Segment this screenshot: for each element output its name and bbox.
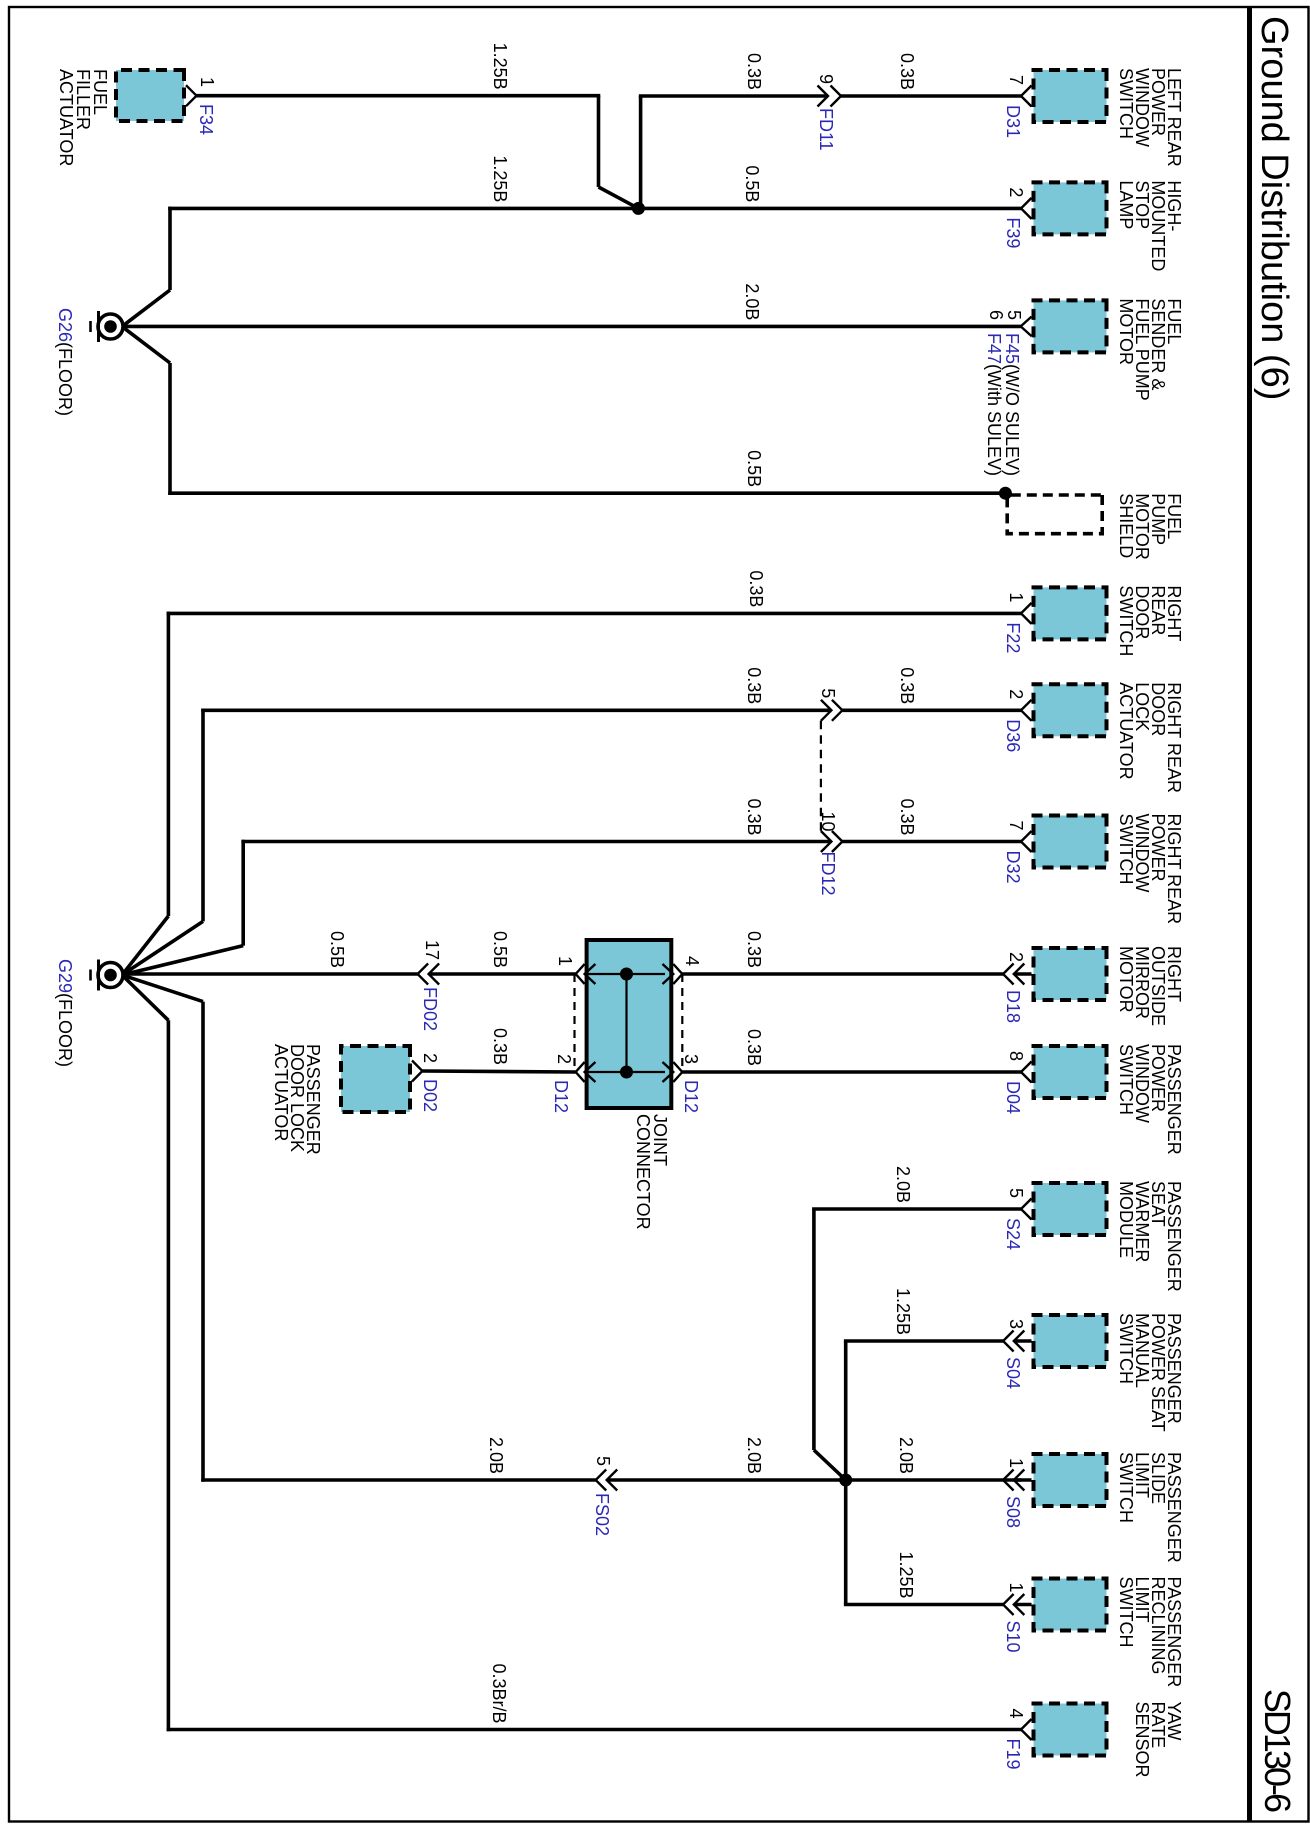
- label passenger door lock actuator: [271, 1044, 323, 1155]
- joint connector box: [587, 940, 672, 1108]
- junction dot at shield corner: [999, 487, 1012, 500]
- wire S10 riser: [844, 1603, 1003, 1607]
- svg-text:FD12: FD12: [818, 852, 838, 896]
- svg-text:0.3B: 0.3B: [744, 931, 764, 968]
- in-line connector FS02: [596, 1470, 618, 1491]
- wire F45 pins to G26: [122, 325, 1021, 329]
- svg-text:2.0B: 2.0B: [742, 283, 762, 320]
- connector double chevron S04: [1003, 1331, 1031, 1352]
- connector pin V of D32: [1021, 831, 1032, 852]
- svg-text:MODULE: MODULE: [1116, 1181, 1136, 1258]
- connector double chevron S08: [1003, 1470, 1031, 1491]
- wire D31 corner to junction dot: [639, 96, 643, 208]
- svg-text:1.25B: 1.25B: [490, 155, 510, 202]
- svg-text:2: 2: [1006, 689, 1026, 699]
- svg-text:6: 6: [986, 310, 1006, 320]
- ground G26 (floor) symbol: [91, 311, 124, 342]
- svg-text:MOTOR: MOTOR: [1116, 298, 1136, 365]
- svg-text:D32: D32: [1003, 851, 1023, 884]
- wire F34 horizontal jog: [597, 96, 601, 187]
- svg-text:0.3B: 0.3B: [744, 667, 764, 704]
- svg-text:SWITCH: SWITCH: [1116, 1044, 1136, 1115]
- svg-text:0.3B: 0.3B: [897, 798, 917, 835]
- connector pin V of S24: [1021, 1199, 1032, 1220]
- svg-text:LAMP: LAMP: [1116, 180, 1136, 229]
- svg-text:SHIELD: SHIELD: [1116, 493, 1136, 558]
- wire S04 drop: [844, 1339, 1003, 1343]
- component box D31 left rear power window switch: [1034, 70, 1107, 122]
- G29 bus D36: [201, 709, 205, 922]
- svg-text:5: 5: [593, 1456, 613, 1466]
- svg-text:2: 2: [1006, 187, 1026, 197]
- G26 bus right: [168, 363, 172, 495]
- svg-text:2: 2: [420, 1053, 440, 1063]
- svg-text:SWITCH: SWITCH: [1116, 68, 1136, 139]
- connector double chevron S10: [1003, 1594, 1031, 1615]
- connector pin V of D02: [412, 1061, 422, 1082]
- label S04 passenger power seat manual switch component name text: [1116, 1313, 1184, 1432]
- G29 fan diagonal D36: [122, 921, 203, 975]
- connector pin V of D04: [1021, 1062, 1032, 1083]
- svg-text:F39: F39: [1003, 217, 1023, 248]
- svg-text:4: 4: [682, 956, 702, 966]
- svg-text:ACTUATOR: ACTUATOR: [1116, 682, 1136, 779]
- component box F22 right rear door switch: [1034, 587, 1107, 639]
- label F22 right rear door switch component name text: [1116, 585, 1184, 656]
- wire FD02 to ground G29: [122, 972, 418, 976]
- in-line connector FD02: [418, 964, 440, 985]
- connector double chevron D18: [1003, 964, 1031, 985]
- connector pin V of F19: [1021, 1719, 1032, 1740]
- wire F34 diagonal to junction: [599, 187, 639, 208]
- svg-text:D18: D18: [1003, 990, 1023, 1023]
- component box F19 yaw rate sensor: [1034, 1704, 1107, 1756]
- svg-text:ACTUATOR: ACTUATOR: [56, 69, 76, 166]
- wire junction to S08: [846, 1478, 1021, 1482]
- svg-text:F45(W/O SULEV): F45(W/O SULEV): [1002, 333, 1022, 476]
- component box F39 high mounted stop lamp: [1034, 182, 1107, 234]
- label fuel sender & fuel pump motor: [1116, 298, 1184, 400]
- svg-text:1: 1: [197, 77, 217, 87]
- label D32 right rear power window switch component name text: [1116, 814, 1184, 925]
- component box F34 fuel filler actuator: [116, 70, 184, 121]
- wire F39 trunk upper: [168, 207, 1021, 211]
- component box D04 passenger power window switch: [1034, 1046, 1107, 1098]
- wire joint connector pin 1 to FD02: [429, 972, 576, 976]
- svg-text:D02: D02: [420, 1079, 440, 1112]
- label D18 right outside mirror motor component name text: [1116, 946, 1184, 1026]
- wire junction to S10 corner: [844, 1480, 848, 1605]
- svg-text:D04: D04: [1003, 1081, 1023, 1114]
- connector pin V of F39: [1021, 198, 1032, 219]
- svg-text:5: 5: [1004, 310, 1024, 320]
- G26 fan diagonal right: [122, 327, 170, 364]
- svg-text:D31: D31: [1003, 105, 1023, 138]
- label S08 passenger slide limit switch component name text: [1116, 1452, 1184, 1563]
- label JOINT CONNECTOR: [633, 1114, 670, 1230]
- svg-text:S10: S10: [1003, 1621, 1023, 1653]
- svg-text:0.5B: 0.5B: [744, 450, 764, 487]
- svg-text:S08: S08: [1003, 1496, 1023, 1528]
- dashed link between FD12 halves: [820, 721, 822, 831]
- svg-text:0.5B: 0.5B: [490, 931, 510, 968]
- label F39 high mounted stop lamp component name text: [1116, 180, 1184, 271]
- joint connector pin chevron top x=1072: [673, 1062, 682, 1082]
- junction dot on F39 trunk: [632, 202, 645, 215]
- wire D04 pin8 to joint connector pin 3: [682, 1070, 1021, 1074]
- svg-text:0.3B: 0.3B: [897, 53, 917, 90]
- joint connector internal bus wire: [625, 974, 627, 1072]
- wire FD11 to corner: [639, 94, 828, 98]
- svg-text:1.25B: 1.25B: [893, 1288, 913, 1335]
- wire fuel pump motor shield drop: [168, 491, 1005, 495]
- svg-text:F47(With SULEV): F47(With SULEV): [984, 333, 1004, 476]
- component box F45/F47 fuel sender & fuel pump motor: [1034, 300, 1107, 352]
- svg-text:Ground Distribution (6): Ground Distribution (6): [1253, 16, 1295, 400]
- wire D32 to G29 bus: [241, 840, 831, 844]
- svg-text:0.5B: 0.5B: [742, 165, 762, 202]
- svg-text:7: 7: [1006, 820, 1026, 830]
- component box D18 right outside mirror motor: [1034, 948, 1107, 1000]
- in-line connector FD12: [821, 831, 843, 852]
- svg-text:0.3B: 0.3B: [746, 570, 766, 607]
- label D36 right rear door lock actuator component name text: [1116, 682, 1184, 793]
- wire FS02 to G29 bus: [201, 1478, 596, 1482]
- svg-text:SENSOR: SENSOR: [1132, 1702, 1152, 1778]
- svg-text:0.3Br/B: 0.3Br/B: [489, 1663, 509, 1723]
- svg-text:FS02: FS02: [592, 1493, 612, 1536]
- wire S24 drop: [812, 1207, 1021, 1211]
- wire F19 yaw rate sensor drop: [167, 1728, 1021, 1732]
- svg-text:0.3B: 0.3B: [897, 667, 917, 704]
- G29 bus D32: [241, 840, 245, 946]
- connector pin V of D36: [1021, 700, 1032, 721]
- wire junction down to FS02: [607, 1478, 846, 1482]
- component box D36 right rear door lock actuator: [1034, 684, 1107, 736]
- svg-text:ACTUATOR: ACTUATOR: [271, 1044, 291, 1141]
- svg-text:MOTOR: MOTOR: [1116, 946, 1136, 1013]
- G29 bus F22: [167, 612, 171, 916]
- svg-text:1: 1: [1006, 1582, 1026, 1592]
- G26 bus left: [168, 207, 172, 290]
- svg-text:1.25B: 1.25B: [490, 43, 510, 90]
- svg-text:3: 3: [681, 1054, 701, 1064]
- component box S24 passenger seat warmer module: [1034, 1183, 1107, 1235]
- label F19 yaw rate sensor component name text: [1132, 1702, 1184, 1778]
- wire D31 pin7 to FD11: [841, 94, 1021, 98]
- svg-text:SWITCH: SWITCH: [1116, 1577, 1136, 1648]
- label fuel filler actuator: [56, 69, 110, 166]
- svg-text:CONNECTOR: CONNECTOR: [633, 1114, 653, 1230]
- svg-text:SD130-6: SD130-6: [1257, 1689, 1298, 1812]
- svg-text:FD02: FD02: [420, 987, 440, 1031]
- svg-text:10: 10: [818, 811, 838, 831]
- svg-text:F22: F22: [1003, 622, 1023, 653]
- joint connector housing dash bottom D12: [573, 974, 575, 1072]
- wire joint connector pin 2 to D02: [422, 1071, 575, 1072]
- wire D36 pin2 to connector 5: [842, 708, 1021, 712]
- component box S04 passenger power seat manual switch: [1034, 1315, 1107, 1367]
- joint connector internal arrows at x=974: [585, 964, 674, 984]
- svg-text:5: 5: [1006, 1188, 1026, 1198]
- svg-text:17: 17: [422, 940, 442, 960]
- G29 bus F19: [167, 1020, 171, 1731]
- ground G29 (floor) symbol: [91, 960, 124, 991]
- svg-text:D36: D36: [1003, 719, 1023, 752]
- svg-text:G29(FLOOR): G29(FLOOR): [55, 959, 75, 1067]
- svg-text:SWITCH: SWITCH: [1116, 1452, 1136, 1523]
- in-line connector FD12 pin5: [821, 700, 843, 721]
- svg-text:1.25B: 1.25B: [896, 1551, 916, 1598]
- wire D32 pin7 to FD12: [842, 840, 1021, 844]
- component box fuel pump motor shield (dashed): [1007, 495, 1102, 534]
- in-line connector FD11: [818, 86, 842, 107]
- svg-text:2.0B: 2.0B: [896, 1437, 916, 1474]
- G29 fan diagonal FS02: [122, 975, 203, 1002]
- svg-text:SWITCH: SWITCH: [1116, 814, 1136, 885]
- svg-text:2: 2: [1006, 952, 1026, 962]
- connector pin V of D31: [1021, 86, 1032, 107]
- G29 fan diagonal F19: [122, 975, 168, 1020]
- wire D36 to G29 bus: [201, 708, 831, 712]
- joint connector pin chevron bottom x=974: [576, 964, 585, 984]
- svg-text:D12: D12: [551, 1080, 571, 1113]
- svg-text:4: 4: [1006, 1708, 1026, 1718]
- svg-text:7: 7: [1006, 75, 1026, 85]
- connector pin V of F22: [1021, 603, 1032, 624]
- label D04 passenger power window switch component name text: [1116, 1044, 1184, 1155]
- svg-text:0.3B: 0.3B: [744, 798, 764, 835]
- svg-text:0.3B: 0.3B: [744, 53, 764, 90]
- junction dot on seat trunk: [839, 1474, 852, 1487]
- component box S08 passenger slide limit switch: [1034, 1454, 1107, 1506]
- G29 bus FS02: [201, 1002, 205, 1482]
- svg-text:1: 1: [1006, 592, 1026, 602]
- svg-text:S04: S04: [1003, 1357, 1023, 1389]
- G29 fan diagonal F22: [122, 916, 168, 975]
- svg-text:2.0B: 2.0B: [486, 1437, 506, 1474]
- svg-text:S24: S24: [1003, 1218, 1023, 1250]
- svg-text:9: 9: [816, 74, 836, 84]
- svg-text:0.3B: 0.3B: [744, 1029, 764, 1066]
- wire S04 horizontal to junction: [844, 1341, 848, 1480]
- svg-text:5: 5: [818, 688, 838, 698]
- wire S24 horizontal: [812, 1209, 816, 1450]
- label S10 passenger reclining limit switch component name text: [1116, 1577, 1184, 1688]
- svg-text:SWITCH: SWITCH: [1116, 585, 1136, 656]
- component box D02 passenger door lock actuator: [341, 1046, 410, 1112]
- svg-text:F19: F19: [1003, 1739, 1023, 1770]
- label fuel pump motor shield: [1116, 493, 1184, 560]
- svg-text:0.5B: 0.5B: [327, 931, 347, 968]
- svg-text:SWITCH: SWITCH: [1116, 1313, 1136, 1384]
- svg-text:1: 1: [555, 956, 575, 966]
- svg-text:F34: F34: [196, 104, 216, 135]
- label D31 left rear power window switch component name text: [1116, 68, 1184, 167]
- label S24 passenger seat warmer module component name text: [1116, 1181, 1184, 1292]
- wire D18 connector to joint connector pin 4: [682, 972, 1003, 976]
- svg-text:0.3B: 0.3B: [490, 1028, 510, 1065]
- G26 fan diagonal left: [122, 290, 170, 327]
- wire S24 diagonal to junction: [814, 1450, 846, 1480]
- joint connector pin chevron bottom x=1072: [576, 1062, 585, 1082]
- joint connector internal node A: [620, 968, 633, 981]
- joint connector internal node B: [620, 1066, 633, 1079]
- svg-text:1: 1: [1006, 1458, 1026, 1468]
- joint connector housing dash top D12: [681, 974, 683, 1072]
- svg-text:FD11: FD11: [816, 108, 836, 151]
- svg-text:2.0B: 2.0B: [744, 1437, 764, 1474]
- G29 fan diagonal D32: [122, 946, 243, 975]
- svg-text:8: 8: [1006, 1051, 1026, 1061]
- svg-text:D12: D12: [681, 1080, 701, 1113]
- connector pin V of F34: [186, 85, 197, 106]
- header separator rule: [1247, 7, 1252, 1822]
- svg-text:G26(FLOOR): G26(FLOOR): [55, 308, 75, 416]
- joint connector internal arrows at x=1072: [585, 1062, 674, 1082]
- component box S10 passenger reclining limit switch: [1034, 1579, 1107, 1631]
- wire F34 riser: [197, 94, 601, 98]
- wire F22 to G29 bus: [167, 612, 1021, 616]
- component box D32 right rear power window switch: [1034, 816, 1107, 868]
- joint connector pin chevron top x=974: [673, 964, 682, 984]
- svg-text:2.0B: 2.0B: [893, 1166, 913, 1203]
- connector fork V pins 5,6 of F45/F47: [1021, 317, 1032, 337]
- svg-text:2: 2: [554, 1054, 574, 1064]
- svg-text:3: 3: [1006, 1319, 1026, 1329]
